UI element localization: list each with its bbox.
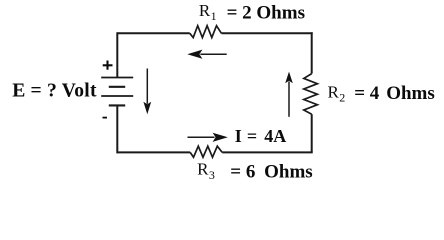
wire top side right segment (221, 32, 311, 35)
battery E: short plate (upper middle) (109, 86, 125, 88)
resistor R3 (190, 146, 222, 157)
svg-text:Ohms: Ohms (264, 161, 313, 182)
svg-text:R: R (199, 1, 211, 20)
current arrow (left side, pointing down) (143, 69, 151, 115)
battery E: short plate (negative, bottom) (109, 104, 125, 106)
battery polarity label - (103, 117, 108, 119)
wire left side bottom segment (116, 105, 118, 153)
svg-text:1: 1 (211, 9, 217, 23)
svg-text:= 2: = 2 (227, 3, 252, 24)
battery E: long plate (positive, top) (101, 77, 133, 79)
svg-text:3: 3 (209, 168, 215, 182)
current arrow (right side, pointing up) (285, 72, 293, 117)
wire bottom side right segment (222, 151, 313, 153)
svg-text:I: I (235, 126, 242, 146)
svg-text:4A: 4A (264, 126, 286, 146)
svg-text:= 6: = 6 (230, 161, 255, 182)
svg-text:E = ? Volt: E = ? Volt (12, 81, 97, 102)
svg-text:R: R (197, 160, 209, 179)
current arrow (bottom, pointing right) (188, 133, 228, 142)
svg-text:2: 2 (339, 91, 345, 105)
current arrow (top, pointing left) (187, 50, 226, 59)
svg-text:=: = (247, 126, 257, 146)
battery E: long plate (lower middle) (101, 95, 133, 97)
svg-text:Ohms: Ohms (386, 83, 435, 104)
svg-text:= 4: = 4 (354, 83, 380, 104)
wire right side bottom segment (311, 114, 313, 152)
svg-text:R: R (328, 83, 340, 102)
wire right side top segment (311, 32, 313, 73)
wire bottom side left segment (117, 151, 190, 153)
wire left side top segment (116, 32, 118, 77)
svg-text:Ohms: Ohms (256, 3, 305, 24)
battery polarity label + (103, 61, 113, 70)
resistor R2 (304, 74, 318, 115)
wire top side left segment (117, 32, 190, 34)
resistor R1 (190, 26, 222, 38)
